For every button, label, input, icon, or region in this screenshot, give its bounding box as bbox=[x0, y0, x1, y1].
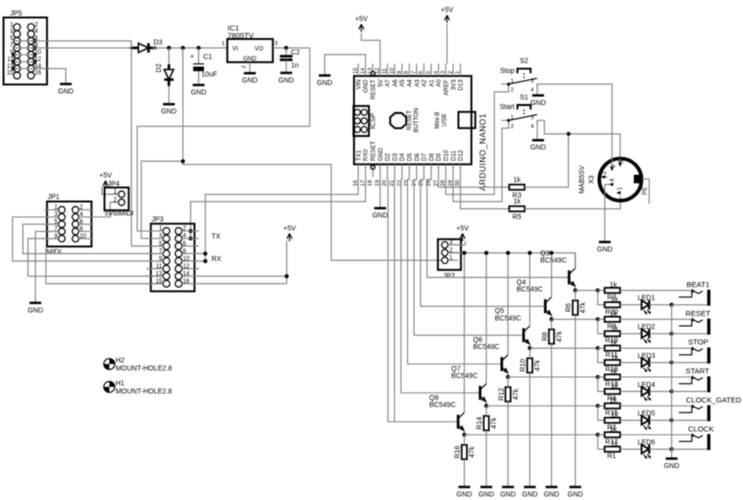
wire JP1 pin3 to JP3 pin9 bbox=[13, 217, 164, 261]
svg-text:GND: GND bbox=[372, 213, 388, 220]
svg-text:1k: 1k bbox=[610, 427, 618, 434]
svg-text:3V3: 3V3 bbox=[451, 79, 457, 90]
svg-text:47k: 47k bbox=[513, 388, 520, 400]
svg-text:1k: 1k bbox=[611, 412, 619, 419]
svg-text:1k: 1k bbox=[610, 282, 618, 289]
wire tip row 4 bbox=[598, 376, 605, 378]
wire JP5 row9-10 bbox=[14, 54, 35, 56]
node rail-D2 bbox=[167, 46, 171, 50]
svg-text:D2: D2 bbox=[156, 63, 163, 72]
svg-text:LED4: LED4 bbox=[638, 382, 656, 389]
svg-text:47k: 47k bbox=[491, 417, 498, 429]
wire tip row 5 bbox=[598, 405, 605, 407]
svg-text:47k: 47k bbox=[469, 446, 476, 458]
svg-text:GND: GND bbox=[500, 491, 516, 498]
resistor R20 1k bbox=[605, 302, 621, 307]
svg-text:GND: GND bbox=[457, 491, 473, 498]
resistor R6 47k bbox=[566, 301, 587, 315]
jack STOP bbox=[679, 338, 711, 364]
wire Arduino D2 to Q8 base bbox=[387, 177, 458, 422]
svg-text:25: 25 bbox=[419, 180, 425, 186]
svg-text:+5V: +5V bbox=[456, 225, 469, 232]
reset button bbox=[390, 108, 420, 133]
svg-text:LED1: LED1 bbox=[638, 295, 656, 302]
wire JP3 pin2/4 tie bbox=[184, 231, 191, 239]
transistor Q3 BC549C bbox=[540, 250, 576, 287]
pin 18 RESET inversion circle bbox=[371, 165, 375, 169]
svg-text:1k: 1k bbox=[611, 441, 619, 448]
svg-text:TX1: TX1 bbox=[356, 149, 362, 161]
connector ICSP bbox=[354, 106, 377, 136]
svg-text:R14: R14 bbox=[477, 417, 484, 430]
wire JP3 pin8/10 tie bbox=[199, 254, 205, 262]
wire tip row 1 bbox=[598, 289, 605, 291]
svg-text:+5V: +5V bbox=[99, 173, 112, 180]
node group 1 feed bbox=[596, 288, 600, 292]
svg-text:Mini-B: Mini-B bbox=[435, 112, 441, 129]
ground Q5 bbox=[522, 487, 538, 498]
svg-text:Q5: Q5 bbox=[495, 308, 504, 315]
svg-text:GND: GND bbox=[530, 100, 546, 107]
svg-text:2: 2 bbox=[448, 71, 454, 74]
capacitor C1 10uF bbox=[190, 48, 217, 85]
transistor Q8 BC549C bbox=[429, 395, 465, 432]
resistor R18 1k bbox=[605, 360, 621, 365]
ground IC1 bbox=[242, 73, 258, 84]
wire resistor to LED4 bbox=[620, 390, 642, 392]
svg-text:GND: GND bbox=[664, 463, 680, 470]
ground C1 bbox=[191, 85, 207, 96]
wire group 6 branch bbox=[598, 435, 605, 449]
wire resistor to jack tip 1 bbox=[620, 289, 693, 291]
svg-text:GND: GND bbox=[364, 79, 370, 93]
node rail-C2 bbox=[284, 46, 288, 50]
svg-text:1n: 1n bbox=[291, 63, 299, 70]
svg-text:VI: VI bbox=[232, 47, 238, 53]
node group 4 feed bbox=[596, 375, 600, 379]
wire Q8 collector bbox=[463, 253, 465, 413]
svg-text:1k: 1k bbox=[611, 354, 619, 361]
wire Arduino GND pin14 to GND bbox=[325, 55, 366, 76]
node rail Q7 bbox=[484, 251, 488, 255]
node rail Q6 bbox=[506, 251, 510, 255]
svg-text:R6: R6 bbox=[566, 303, 573, 312]
svg-text:16: 16 bbox=[183, 279, 190, 285]
svg-text:D3: D3 bbox=[393, 153, 399, 161]
transistor Q7 BC549C bbox=[451, 366, 487, 403]
svg-text:S1: S1 bbox=[520, 95, 529, 102]
svg-text:D6: D6 bbox=[415, 153, 421, 161]
wire Q5 emitter resistor top bbox=[529, 348, 531, 358]
svg-text:RESET: RESET bbox=[371, 79, 377, 99]
node rail LED3 bbox=[670, 361, 674, 365]
regulator IC1 7805TV bbox=[222, 24, 278, 69]
ground Q8 bbox=[457, 487, 473, 498]
wire RX0 to JP3 bbox=[184, 177, 366, 231]
svg-text:Q6: Q6 bbox=[473, 337, 482, 344]
svg-text:2: 2 bbox=[511, 124, 514, 130]
ground JP5 bbox=[58, 84, 74, 95]
wire LED4 to rail bbox=[649, 390, 671, 392]
svg-text:USB: USB bbox=[442, 114, 448, 126]
svg-text:1k: 1k bbox=[610, 340, 618, 347]
svg-text:D3: D3 bbox=[154, 40, 163, 47]
resistor R10 47k bbox=[520, 358, 541, 372]
wire emitter to resistor group 4 bbox=[508, 376, 598, 378]
svg-text:GND: GND bbox=[242, 78, 258, 85]
wire rail to jack sleeve 1 bbox=[672, 304, 708, 306]
wire Q4 emitter resistor top bbox=[551, 319, 553, 329]
svg-text:MAB5SV: MAB5SV bbox=[579, 165, 586, 194]
wire to JP3 pin15 bbox=[46, 247, 163, 284]
wire Start pin4 to junction bbox=[544, 120, 568, 133]
diode D3 bbox=[130, 40, 162, 53]
connector JP4 bbox=[105, 181, 134, 217]
wire JP1 pin9 to JP3 pin13 bbox=[28, 239, 163, 277]
svg-text:Q3: Q3 bbox=[540, 250, 549, 257]
svg-text:MOUNT-HOLE2.8: MOUNT-HOLE2.8 bbox=[116, 389, 173, 396]
svg-text:R12: R12 bbox=[498, 388, 505, 401]
svg-text:JP3: JP3 bbox=[152, 217, 164, 224]
svg-text:10uF: 10uF bbox=[201, 72, 217, 79]
wire D10 to Stop switch bbox=[446, 86, 509, 194]
svg-text:9: 9 bbox=[397, 71, 403, 74]
node rail-branch bbox=[181, 46, 185, 50]
svg-text:GND: GND bbox=[530, 145, 546, 152]
svg-text:1: 1 bbox=[222, 41, 225, 47]
svg-text:R10: R10 bbox=[520, 359, 527, 372]
svg-text:A5: A5 bbox=[400, 79, 406, 87]
svg-text:S2: S2 bbox=[520, 58, 529, 65]
svg-text:GND: GND bbox=[161, 109, 177, 116]
wire Q5 emitter bbox=[529, 344, 531, 348]
transistor Q4 BC549C bbox=[517, 279, 553, 316]
svg-text:BUTTON: BUTTON bbox=[414, 108, 420, 133]
LED4 bbox=[638, 382, 656, 402]
wire resistor to LED2 bbox=[620, 333, 642, 335]
ground C2 bbox=[278, 73, 294, 84]
wire Q4 emitter resistor to GND bbox=[551, 344, 553, 487]
svg-text:4: 4 bbox=[531, 88, 534, 94]
svg-text:D11: D11 bbox=[451, 150, 457, 161]
wire tip row 2 bbox=[598, 318, 605, 320]
wire resistor to jack tip 3 bbox=[620, 347, 693, 349]
connector JP5 bbox=[4, 11, 48, 85]
wire Q6 emitter resistor to GND bbox=[507, 402, 509, 487]
svg-text:RESET: RESET bbox=[686, 309, 711, 318]
wire branch to JP3 pin3 via 141 bbox=[141, 161, 183, 238]
node rail Q5 bbox=[528, 251, 532, 255]
svg-text:START: START bbox=[686, 367, 710, 376]
svg-text:GND: GND bbox=[28, 307, 44, 314]
jack CLOCK bbox=[679, 424, 714, 450]
node group 5 feed bbox=[596, 404, 600, 408]
svg-text:A3: A3 bbox=[415, 79, 421, 87]
svg-text:LED6: LED6 bbox=[638, 440, 656, 447]
svg-text:C1: C1 bbox=[203, 54, 212, 61]
resistor R17 1k bbox=[605, 432, 621, 437]
svg-text:3: 3 bbox=[531, 115, 534, 121]
svg-text:4: 4 bbox=[433, 71, 439, 74]
wire Q3 emitter bbox=[574, 287, 576, 291]
svg-text:2: 2 bbox=[242, 65, 248, 68]
svg-text:PE: PE bbox=[642, 187, 648, 195]
svg-text:1k: 1k bbox=[513, 177, 521, 184]
node JP3 pin4 bbox=[189, 237, 193, 241]
resistor R13 1k bbox=[605, 374, 621, 379]
svg-text:Q8: Q8 bbox=[429, 395, 438, 402]
svg-text:10: 10 bbox=[80, 234, 87, 240]
svg-text:+: + bbox=[190, 53, 194, 60]
svg-text:GND: GND bbox=[317, 80, 333, 87]
svg-text:7: 7 bbox=[411, 71, 417, 74]
ground Q6 bbox=[500, 487, 516, 498]
wire Q6 collector bbox=[507, 253, 509, 355]
svg-text:1: 1 bbox=[511, 79, 514, 85]
transistor Q6 BC549C bbox=[473, 337, 509, 374]
wire JP5 pins 9-11-13 tie bbox=[13, 55, 15, 69]
ground S2 bbox=[530, 95, 546, 106]
resistor R16 47k bbox=[455, 445, 476, 459]
wire TX1 to JP3 bbox=[199, 177, 358, 254]
wire emitter to resistor group 2 bbox=[552, 318, 598, 320]
svg-text:Stop: Stop bbox=[500, 68, 515, 75]
wire Q8 emitter bbox=[463, 431, 465, 435]
capacitor C2 1n bbox=[280, 48, 300, 73]
svg-text:22: 22 bbox=[397, 180, 403, 186]
resistor R1 1k bbox=[605, 447, 621, 452]
wire Start pin4 to GND bbox=[536, 120, 538, 140]
wire JP1 pin4 to JP4 pin2 bbox=[79, 202, 119, 217]
resistor R2 1k bbox=[605, 418, 621, 423]
wire group 3 branch bbox=[598, 348, 605, 362]
node group 2 feed bbox=[596, 317, 600, 321]
svg-text:R16: R16 bbox=[455, 446, 462, 459]
+5V supply JP4 bbox=[99, 173, 112, 189]
Mini-B USB bbox=[435, 112, 475, 129]
wire 5V to JP3 pin1 bbox=[137, 48, 310, 231]
transistor Q5 BC549C bbox=[495, 308, 531, 345]
wire 9V rail D3 to IC1 VI bbox=[153, 47, 228, 49]
wire JP5 pins 10-12-14 tie bbox=[34, 55, 36, 69]
wire Q7 emitter resistor to GND bbox=[485, 430, 487, 487]
wire resistor to LED3 bbox=[620, 362, 642, 364]
wire group 2 branch bbox=[598, 319, 605, 333]
svg-text:20: 20 bbox=[382, 180, 388, 186]
wire group 4 branch bbox=[598, 377, 605, 391]
svg-text:BC549C: BC549C bbox=[429, 402, 455, 409]
resistor R9 1k bbox=[605, 317, 621, 322]
node rail LED6 bbox=[670, 447, 674, 451]
LED2 bbox=[638, 324, 656, 344]
svg-text:CLOCK_GATED: CLOCK_GATED bbox=[686, 395, 742, 404]
svg-text:1: 1 bbox=[455, 71, 461, 74]
wire Q7 emitter bbox=[485, 402, 487, 406]
svg-text:8: 8 bbox=[404, 71, 410, 74]
resistor R8 47k bbox=[542, 329, 563, 343]
wire emitter to resistor group 1 bbox=[575, 289, 598, 291]
svg-text:1: 1 bbox=[511, 115, 514, 121]
resistor R4 1k bbox=[605, 389, 621, 394]
svg-text:12: 12 bbox=[375, 68, 381, 74]
svg-text:D13: D13 bbox=[459, 79, 465, 91]
svg-text:D9: D9 bbox=[437, 153, 443, 161]
svg-text:A0: A0 bbox=[437, 79, 443, 87]
svg-text:TX: TX bbox=[212, 233, 221, 240]
wire resistor to jack tip 4 bbox=[620, 376, 693, 378]
node Q4 emitter bbox=[550, 317, 554, 321]
wire X3 pin4 to GND bbox=[605, 184, 609, 242]
svg-text:GND: GND bbox=[479, 491, 495, 498]
wire JP2 pin2 collector rail bbox=[448, 253, 575, 268]
ground Q3 bbox=[568, 487, 584, 498]
wire R5 to X3 pin1 bbox=[525, 196, 621, 209]
node Start/R3 junction bbox=[566, 132, 570, 136]
wire rail to jack sleeve 5 bbox=[672, 419, 708, 421]
svg-text:GND: GND bbox=[191, 89, 207, 96]
wire LED3 to rail bbox=[649, 362, 671, 364]
wire JP5 pin14 to GND bbox=[14, 69, 66, 84]
wire LED6 to rail bbox=[649, 448, 671, 450]
node Q5 emitter bbox=[528, 346, 532, 350]
svg-text:R8: R8 bbox=[542, 332, 549, 341]
+5V supply JP3 bbox=[283, 225, 296, 241]
jack BEAT1 bbox=[679, 280, 711, 306]
svg-text:RESET: RESET bbox=[371, 141, 377, 161]
wire Arduino D3 down bbox=[394, 177, 396, 422]
+5V supply near Arduino bbox=[355, 16, 368, 32]
svg-text:15: 15 bbox=[156, 279, 163, 285]
svg-text:+5V: +5V bbox=[283, 225, 296, 232]
svg-text:Q4: Q4 bbox=[517, 279, 526, 286]
node rail LED1 bbox=[670, 303, 674, 307]
svg-text:14: 14 bbox=[183, 271, 190, 277]
resistor R5 1k bbox=[509, 198, 524, 221]
wire Arduino D6 to Q5 base bbox=[414, 177, 524, 335]
ground S1 bbox=[530, 140, 546, 151]
resistor R14 47k bbox=[477, 416, 498, 430]
connector JP2 bbox=[438, 239, 461, 280]
svg-text:D8: D8 bbox=[429, 153, 435, 161]
ground D2 bbox=[161, 104, 177, 115]
svg-text:47k: 47k bbox=[580, 302, 587, 314]
wire Stop pin3 to X3 pin5 bbox=[544, 84, 612, 158]
svg-text:STOP: STOP bbox=[688, 338, 708, 347]
wire JP5 pin6 to JP3 pin5 bbox=[14, 41, 163, 246]
svg-text:RX0: RX0 bbox=[364, 149, 370, 161]
wire group 1 branch bbox=[598, 290, 605, 304]
svg-text:D4: D4 bbox=[400, 153, 406, 161]
svg-text:Q7: Q7 bbox=[451, 366, 460, 373]
svg-text:3: 3 bbox=[531, 79, 534, 85]
wire +5V to JP3 pin14/16 bbox=[199, 241, 287, 276]
node rail LED2 bbox=[670, 332, 674, 336]
LED5 bbox=[638, 411, 656, 431]
wire rail to jack sleeve 6 bbox=[672, 448, 708, 450]
svg-text:1k: 1k bbox=[610, 311, 618, 318]
svg-text:5V: 5V bbox=[378, 80, 384, 87]
pin 13 RESET inversion circle bbox=[371, 71, 375, 75]
wire Q5 collector bbox=[529, 253, 531, 326]
ground LED rail bbox=[664, 459, 680, 470]
wire +5V to Arduino 5V pin bbox=[361, 33, 380, 63]
svg-text:D2: D2 bbox=[386, 153, 392, 161]
resistor R15 1k bbox=[605, 403, 621, 408]
node JP3 pin8 bbox=[203, 252, 207, 256]
svg-text:GND: GND bbox=[378, 147, 384, 161]
svg-text:LED3: LED3 bbox=[638, 353, 656, 360]
wire D11 to Start switch bbox=[453, 122, 509, 201]
svg-text:ICSP: ICSP bbox=[370, 113, 377, 130]
svg-text:RX: RX bbox=[212, 256, 222, 263]
svg-text:12: 12 bbox=[183, 264, 190, 270]
wire emitter to resistor group 5 bbox=[486, 405, 598, 407]
wire Q6 emitter resistor top bbox=[507, 377, 509, 387]
node group 3 feed bbox=[596, 346, 600, 350]
resistor R7 1k bbox=[605, 288, 621, 293]
ground Q4 bbox=[544, 487, 560, 498]
svg-text:GND: GND bbox=[522, 491, 538, 498]
wire +5V to JP2 pin3 bbox=[448, 241, 465, 245]
svg-text:MOUNT-HOLE2.8: MOUNT-HOLE2.8 bbox=[116, 366, 173, 373]
svg-text:47k: 47k bbox=[535, 359, 542, 371]
wire Q6 emitter bbox=[507, 373, 509, 377]
svg-text:6: 6 bbox=[419, 71, 425, 74]
mount hole H1 bbox=[104, 380, 172, 395]
wire emitter to resistor group 3 bbox=[530, 347, 598, 349]
svg-text:ARDUINO_NANO1: ARDUINO_NANO1 bbox=[479, 113, 488, 191]
wire Q7 collector bbox=[485, 253, 487, 384]
svg-text:RESET: RESET bbox=[407, 110, 413, 130]
wire resistor to LED6 bbox=[620, 448, 642, 450]
svg-text:X3: X3 bbox=[589, 175, 596, 184]
svg-text:A2: A2 bbox=[422, 79, 428, 87]
wire IC1 GND pin bbox=[249, 62, 251, 73]
svg-text:13: 13 bbox=[156, 271, 163, 277]
wire Arduino D5 to Q6 base bbox=[408, 177, 502, 364]
svg-text:BEAT1: BEAT1 bbox=[687, 280, 710, 289]
svg-text:A7: A7 bbox=[386, 79, 392, 87]
wire 9V branch to JP3 pin3 bbox=[183, 48, 442, 260]
svg-text:14: 14 bbox=[360, 68, 366, 74]
node Q8 emitter bbox=[462, 433, 466, 437]
wire Q3 emitter resistor to GND bbox=[574, 315, 576, 487]
wire JP5 pin8 to D3 anode (9V rail) bbox=[14, 47, 131, 49]
wire resistor to jack tip 6 bbox=[620, 434, 693, 436]
node rail Q8 bbox=[462, 251, 466, 255]
switch S1 Start bbox=[500, 95, 545, 130]
node rail Q4 bbox=[550, 251, 554, 255]
LED1 bbox=[638, 295, 656, 315]
node rail-C1 bbox=[197, 46, 201, 50]
diode D2 bbox=[156, 48, 174, 86]
wire IC1 VO 5V rail bbox=[273, 47, 310, 49]
svg-text:GND: GND bbox=[597, 246, 613, 253]
wire +5V to JP4 pin1 bbox=[102, 186, 119, 194]
svg-text:15: 15 bbox=[353, 68, 359, 74]
svg-text:CLOCK: CLOCK bbox=[688, 424, 714, 433]
svg-text:GND: GND bbox=[544, 491, 560, 498]
wire resistor to LED5 bbox=[620, 419, 642, 421]
resistor R3 1k bbox=[509, 177, 524, 200]
svg-text:VIN: VIN bbox=[356, 80, 362, 90]
node branch T bbox=[181, 159, 185, 163]
wire emitter to resistor group 6 bbox=[464, 434, 598, 436]
svg-text:D10: D10 bbox=[444, 149, 450, 161]
svg-text:JP1: JP1 bbox=[48, 194, 60, 201]
svg-text:1k: 1k bbox=[513, 198, 521, 205]
wire Q3 collector bbox=[574, 253, 576, 268]
